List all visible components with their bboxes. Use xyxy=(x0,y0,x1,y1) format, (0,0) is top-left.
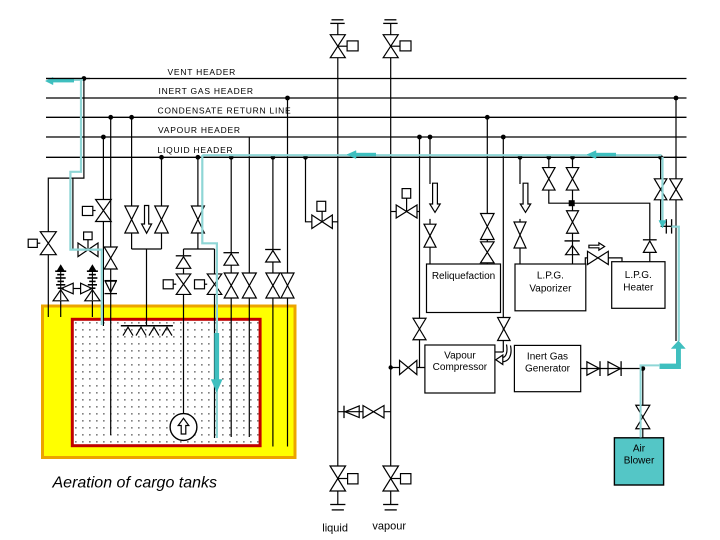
junction on condensate line (x110.7) xyxy=(108,115,113,120)
valve on crossover xyxy=(363,406,384,418)
pipe: spray branch from liquid header xyxy=(161,157,163,206)
inert gas header line xyxy=(46,97,687,99)
actuator square above liquid tee valve xyxy=(317,201,326,222)
valve on reliquefaction feed xyxy=(424,224,436,247)
relief valve RV1 spring (pine tree) xyxy=(55,265,66,300)
label VAPOUR HEADER xyxy=(158,125,241,135)
junction node at vaporizer manifold xyxy=(569,200,575,206)
actuator square right of bottom liquid valve xyxy=(338,474,358,484)
actuator square left of x103 valve xyxy=(82,206,95,215)
actuator square left of left-branch valve xyxy=(163,280,176,289)
junction on liquid header (x520) xyxy=(518,155,523,160)
svg-text:VENT HEADER: VENT HEADER xyxy=(168,67,237,77)
pipe: vaporizer feed mid xyxy=(519,219,521,224)
actuator square above vapour tee valve xyxy=(402,189,411,212)
check valve 1 on IG outlet xyxy=(587,361,600,376)
pipe: vaporizer feed lower xyxy=(519,248,521,264)
valve on x676 riser xyxy=(670,179,683,200)
svg-text:Reliquefaction: Reliquefaction xyxy=(432,271,495,282)
cargo tank outer insulation (yellow) xyxy=(43,306,296,458)
junction air blower tie-in xyxy=(640,366,645,371)
actuator square of vent branch valve xyxy=(28,239,40,247)
pipe: spray feed into tank sprinkler xyxy=(146,249,148,325)
label L.P.G. (heater) xyxy=(625,270,652,281)
check valve on heater feed xyxy=(643,240,657,253)
pipe: left branch mid xyxy=(183,268,185,274)
pipe: inert gas outlet run xyxy=(581,368,643,370)
valve on x231 drop xyxy=(224,273,238,298)
pipe: manifold right branch upper xyxy=(214,249,216,274)
pipe: branch down to isolating valve run xyxy=(72,178,74,250)
valve on right riser xyxy=(566,168,579,191)
svg-text:L.P.G.: L.P.G. xyxy=(537,271,564,282)
pipe: vapour to reliquefaction upper xyxy=(429,137,431,184)
pipe: liquid line bottom stub xyxy=(337,491,339,505)
spray valve right xyxy=(155,206,169,233)
pipe: liquid drop x272.9 into tank annulus xyxy=(272,157,274,446)
pipe: left riser to junction xyxy=(549,190,572,203)
label Blower xyxy=(624,456,655,467)
teal riser right side (hose link down to air inlet) xyxy=(672,227,679,341)
valve on x272.9 drop xyxy=(266,273,280,298)
valve on x103 drop xyxy=(96,200,112,222)
junction on liquid header (x197.9) xyxy=(196,155,201,160)
relief valve RV1 stem into tank xyxy=(60,301,62,317)
liquid header line xyxy=(46,156,687,158)
valve on x250 drop xyxy=(242,273,256,298)
valve on x503.3 drop xyxy=(498,318,510,341)
valve on compressor suction run xyxy=(400,360,417,374)
check valve 2 on IG outlet xyxy=(608,361,621,376)
junction on vent header xyxy=(82,76,87,81)
junction on inert gas header (x287.5) xyxy=(285,96,290,101)
label Vaporizer xyxy=(529,284,572,295)
label LIQUID HEADER xyxy=(158,145,234,155)
pipe: liquid to vaporizer upper xyxy=(519,157,521,184)
pipe: liquid header drop xyxy=(197,157,199,206)
label INERT GAS HEADER xyxy=(159,86,254,96)
hose/spool link between risers xyxy=(661,219,676,233)
valve on inert gas drop xyxy=(281,273,294,298)
condensate return line xyxy=(46,116,687,118)
lower valve on condensate riser xyxy=(481,242,495,263)
svg-text:INERT GAS HEADER: INERT GAS HEADER xyxy=(159,86,254,96)
actuator square above x88 valve xyxy=(84,232,93,250)
svg-text:Vapour: Vapour xyxy=(444,350,476,361)
pipe: spray branch from condensate xyxy=(131,117,133,206)
cargo pump symbol (circle with hollow up arrow) xyxy=(170,414,197,441)
teal arrow on vent header (pointing left) xyxy=(46,77,91,84)
pipe: vent riser from tank area to vent header xyxy=(48,79,84,232)
svg-text:Heater: Heater xyxy=(623,283,654,294)
teal riser right side (liquid header to hose link) xyxy=(661,157,663,221)
pipe: condensate from reliquefaction xyxy=(486,117,488,264)
valve on left riser xyxy=(543,168,556,191)
junction on liquid header (x572.5) xyxy=(570,155,575,160)
check cone on vaporizer inlet xyxy=(566,245,580,254)
pipe: liquid drop x231 into tank xyxy=(230,157,232,437)
valve between vaporizer and heater xyxy=(588,251,609,264)
junction on liquid header (x161.5) xyxy=(159,155,164,160)
junction on condensate line (x487.3) xyxy=(485,115,490,120)
teal arrowhead pointing down at hose link xyxy=(659,221,666,229)
svg-text:Inert Gas: Inert Gas xyxy=(527,351,568,362)
pipe: liquid header tee to loading line xyxy=(306,157,338,222)
box Reliquefaction xyxy=(427,264,501,313)
teal thick down-arrow inside cargo tank xyxy=(211,333,222,392)
pipe: vent branch stub into tank top xyxy=(47,255,49,317)
label VENT HEADER xyxy=(168,67,237,77)
junction on vapour header (x103) xyxy=(101,135,106,140)
valve on tank vent branch (x48) xyxy=(40,232,56,255)
valve on liquid tee xyxy=(312,215,333,229)
pipe: compressor suction run xyxy=(391,367,425,369)
pipe: vaporizer outlet left riser xyxy=(548,157,550,167)
box Air Blower (teal) xyxy=(614,438,663,485)
svg-text:liquid: liquid xyxy=(322,522,348,534)
valve on horizontal run (x88) xyxy=(78,243,98,257)
valve at bottom of liquid line xyxy=(330,466,346,491)
svg-text:Aeration of cargo tanks: Aeration of cargo tanks xyxy=(52,474,218,491)
pipe: elbow into compressor xyxy=(495,351,503,353)
valve on compressor suction drop xyxy=(413,318,426,340)
spray valve left xyxy=(125,206,139,233)
pipe: spray merge header xyxy=(132,233,162,249)
pipe: right branch into tank xyxy=(214,295,216,439)
junction on inert gas header (x676) xyxy=(674,96,679,101)
teal highlighted flow: liquid header aeration line xyxy=(202,154,661,156)
label L.P.G. (vaporizer) xyxy=(537,271,564,282)
teal arrow on liquid header right (pointing left) xyxy=(587,151,616,159)
svg-text:Air: Air xyxy=(633,444,646,455)
pipe: heater feed lower xyxy=(649,252,651,261)
junction on vapour header (x419.5) xyxy=(417,135,422,140)
valve on x660.6 riser xyxy=(654,179,667,200)
pipe: vapour drop x250 into tank xyxy=(248,137,250,437)
svg-text:CONDENSATE RETURN LINE: CONDENSATE RETURN LINE xyxy=(158,105,292,115)
svg-text:Blower: Blower xyxy=(624,456,655,467)
junction on liquid header (x660.6) xyxy=(658,155,663,160)
label Heater xyxy=(623,283,654,294)
teal thick up-arrow at air blower tie-in xyxy=(660,341,686,369)
pipe: vapour loading line (vertical) xyxy=(390,23,392,465)
label CONDENSATE RETURN LINE xyxy=(158,105,292,115)
pipe: reliquefaction feed mid xyxy=(429,219,431,224)
junction on liquid header (x231.2) xyxy=(229,155,234,160)
vent header line xyxy=(46,78,687,80)
label Reliquefaction xyxy=(432,271,495,282)
pipe: inert gas drop into tank annulus xyxy=(287,98,289,447)
vapour header line xyxy=(46,136,687,138)
hollow right arrow above valve xyxy=(589,243,605,250)
pipe: vapour header drop to tank stub xyxy=(102,137,104,326)
valve on vapour tee xyxy=(396,205,417,218)
hollow down arrow between spray valves xyxy=(142,206,152,234)
hollow down arrow on reliquefaction feed xyxy=(430,183,440,212)
label liquid xyxy=(322,522,348,534)
teal arrow on liquid header left (pointing left) xyxy=(347,151,376,159)
pipe: right riser down to vaporizer xyxy=(572,190,574,264)
valve on left branch xyxy=(176,274,191,295)
liquid line bottom cap xyxy=(330,505,345,510)
actuator square left of right-branch valve xyxy=(195,280,208,289)
pipe: left branch into tank (pump column) xyxy=(183,295,185,414)
pipe: crossover between loading lines xyxy=(338,411,391,413)
pipe: vapour tee run xyxy=(391,211,420,213)
valve above vaporizer xyxy=(567,211,579,234)
label Vapour (line 1) xyxy=(444,350,476,361)
tank sprinkler bar and nozzles xyxy=(121,326,173,336)
box L.P.G. Heater xyxy=(612,262,665,309)
junction on liquid header (x272.9) xyxy=(271,155,276,160)
relief valve RV1 body (up triangle) xyxy=(53,290,68,301)
pipe: horizontal valve run to tank stub xyxy=(73,249,104,251)
upper valve on condensate riser xyxy=(481,214,495,240)
valve on condensate drop xyxy=(104,247,117,269)
pipe: vaporizer top to heater xyxy=(585,258,622,264)
pipe: drop to manifold tee xyxy=(197,233,199,249)
actuator square right of top liquid valve xyxy=(338,41,358,51)
svg-text:Generator: Generator xyxy=(525,363,571,374)
valve on liquid header drop xyxy=(191,206,204,233)
check valve on crossover xyxy=(344,406,359,418)
pipe: vapour line bottom stub xyxy=(390,491,392,505)
check valve on left branch xyxy=(176,256,192,268)
teal line from air blower to tie-in junction xyxy=(640,365,661,437)
flange on vaporizer inlet xyxy=(565,240,580,242)
check valve on x231 drop xyxy=(223,253,239,266)
box Inert Gas Generator xyxy=(514,345,580,391)
label Air xyxy=(633,444,646,455)
caption Aeration of cargo tanks xyxy=(52,474,218,491)
valve on air blower riser xyxy=(636,405,650,429)
pipe: vaporizer outlet right riser xyxy=(572,157,574,167)
pipe: condensate drop into tank xyxy=(110,117,112,435)
label Generator xyxy=(525,363,571,374)
hollow hook arrow into compressor xyxy=(496,345,511,365)
box L.P.G. Vaporizer xyxy=(515,264,586,311)
junction on vapour header (x503.3) xyxy=(501,135,506,140)
pipe: manifold branch to heater xyxy=(572,203,650,240)
valve at top of liquid line xyxy=(330,35,345,58)
teal highlighted flow: vent header out-flow line xyxy=(49,78,102,325)
pipe: manifold left branch upper xyxy=(183,249,185,255)
relief valve RV2 body (up triangle) xyxy=(85,290,100,301)
drain funnel symbol on condensate drop xyxy=(105,281,118,294)
pipe: vapour header drop right of reliquefaction xyxy=(502,137,504,352)
svg-text:Compressor: Compressor xyxy=(433,362,488,373)
actuator square right of top vapour valve xyxy=(391,41,411,51)
liquid loading line vent cap xyxy=(330,20,344,24)
svg-text:VAPOUR HEADER: VAPOUR HEADER xyxy=(158,125,241,135)
relief valve RV2 spring (pine tree) xyxy=(87,265,98,300)
junction on liquid header (x548.8) xyxy=(546,155,551,160)
cargo tank inner shell (red) with dotted fill xyxy=(72,319,260,445)
pipe: reliquefaction feed lower xyxy=(429,247,431,264)
pipe: inert gas riser down to air tie-in xyxy=(675,98,677,341)
hollow down arrow on vaporizer feed xyxy=(520,183,530,212)
svg-text:L.P.G.: L.P.G. xyxy=(625,270,652,281)
vapour line bottom cap xyxy=(383,505,398,510)
pipe: liquid loading line (vertical) xyxy=(337,23,339,465)
valve on right branch (aeration inlet) xyxy=(207,274,222,295)
label Compressor (line 2) xyxy=(433,362,488,373)
junction on condensate line (x131.6) xyxy=(129,115,134,120)
valve at bottom of vapour line xyxy=(383,466,399,491)
relief valve RV2 stem into tank xyxy=(91,301,93,317)
valve at top of vapour line xyxy=(383,35,398,58)
check valve on x272.9 drop xyxy=(265,250,281,263)
relief cross-connection with side cones xyxy=(61,283,92,294)
junction on liquid header (x305.5) xyxy=(303,155,308,160)
teal riser beside liquid-header drop pipe xyxy=(202,155,217,438)
pipe: manifold header xyxy=(184,248,215,250)
actuator square right of bottom vapour valve xyxy=(391,474,411,484)
svg-text:LIQUID HEADER: LIQUID HEADER xyxy=(158,145,234,155)
svg-text:vapour: vapour xyxy=(372,520,406,532)
svg-text:Vaporizer: Vaporizer xyxy=(529,284,572,295)
label vapour xyxy=(372,520,406,532)
valve on vaporizer feed xyxy=(514,222,526,248)
label Inert Gas xyxy=(527,351,568,362)
pipe: air blower riser xyxy=(642,369,644,438)
junction on vapour header (x430) xyxy=(428,135,433,140)
vapour loading line vent cap xyxy=(383,20,397,24)
box Vapour Compressor xyxy=(425,345,495,393)
pipe: right riser to hose link xyxy=(660,157,662,222)
pipe: vapour header drop to compressor xyxy=(419,137,421,368)
junction of crossover and suction xyxy=(389,365,393,369)
